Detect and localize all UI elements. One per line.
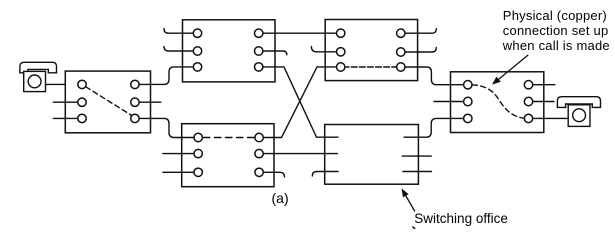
first-stage switch box A (top-left) xyxy=(183,20,276,82)
telephone T2 body xyxy=(568,105,590,127)
node box C R-col xyxy=(255,133,263,141)
wire left office row1 to box A row3 xyxy=(139,67,193,85)
telephone T2 handset (right) xyxy=(557,97,600,108)
first-stage switch box C (bottom-left) xyxy=(182,124,274,187)
switching office box D (bottom-right, unexpanded) xyxy=(325,125,419,185)
dashed connection inside box C row1 xyxy=(204,137,255,139)
trunk hook box B right row2 xyxy=(405,48,436,53)
wire stub right office right row1 xyxy=(533,84,555,86)
node left office R-col xyxy=(131,80,139,88)
svg-text:when call is made: when call is made xyxy=(502,38,610,53)
second-stage switch box B (top-right) xyxy=(325,20,417,81)
wire stub right office left row2 xyxy=(434,101,463,103)
trunk hook box A left row1 xyxy=(164,29,193,34)
wire stub box D right row3 xyxy=(403,171,432,173)
wire stub box C left row3 xyxy=(163,171,194,173)
wire stub left office row2 xyxy=(53,101,78,103)
right office box xyxy=(451,72,544,133)
trunk hook box D left row3 xyxy=(312,172,338,177)
trunk hook box A right row2 xyxy=(263,51,287,55)
node box C L-col xyxy=(194,133,202,141)
wire box A row3 cross to box D row1 xyxy=(263,67,338,137)
wire box C row1 cross to box B row3 xyxy=(263,67,336,138)
node right office R-col xyxy=(524,81,532,89)
telephone T1 body xyxy=(24,71,46,91)
dashed copper connection in right office xyxy=(472,85,524,119)
trunk hook box B left row2 xyxy=(311,47,336,52)
wire stub left office row3 xyxy=(53,117,78,119)
cropped arrow fragment bottom xyxy=(413,227,415,229)
trunk hook box C right row3 xyxy=(263,172,284,177)
wire stub box D right row2 xyxy=(402,155,431,157)
svg-text:Switching office: Switching office xyxy=(414,211,508,226)
wire box B row3 to right office row1 xyxy=(405,67,463,85)
wire stub left office right row2 xyxy=(139,101,161,103)
wire right office row3 to phone T2 xyxy=(533,117,569,119)
dashed connection inside box B row3 xyxy=(346,66,396,68)
svg-text:(a): (a) xyxy=(272,190,289,206)
trunk hook box A left row2 xyxy=(164,46,193,51)
wire left office row3 to box C row1 xyxy=(139,118,194,137)
node box B R-col xyxy=(397,29,405,37)
telephone T2 dial circle xyxy=(573,109,586,122)
dashed connection inside left office xyxy=(86,87,132,116)
wire stub right office right row2 xyxy=(533,101,554,103)
annotation arrow to switching office xyxy=(402,188,415,211)
left office box xyxy=(65,71,150,133)
wire stub box C left row2 xyxy=(163,153,194,155)
wire phone T1 to left office xyxy=(46,83,66,85)
telephone T1 handset (left) xyxy=(20,62,57,73)
label: Physical (copper) connection set up when call is made xyxy=(502,8,610,53)
wire box A row1 to box B row1 xyxy=(263,32,337,34)
annotation arrow to copper connection xyxy=(492,55,528,84)
svg-text:Physical (copper): Physical (copper) xyxy=(503,8,607,23)
node right office L-col xyxy=(464,81,472,89)
node left office L-col xyxy=(78,80,86,88)
node box B L-col xyxy=(337,29,345,37)
node box A L-col xyxy=(193,29,201,37)
trunk hook box B right row1 xyxy=(405,29,436,34)
telephone T1 dial circle xyxy=(28,75,41,88)
wire box C row2 to box D row2 xyxy=(263,153,337,155)
svg-text:connection set up: connection set up xyxy=(503,23,609,38)
wire box D right row1 to right office row3 xyxy=(404,118,463,137)
node box A R-col xyxy=(255,29,263,37)
connection point circles xyxy=(78,29,533,177)
